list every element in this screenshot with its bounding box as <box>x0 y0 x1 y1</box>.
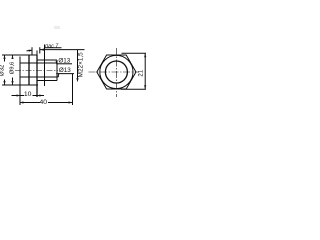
svg-text:Ø13: Ø13 <box>59 67 71 74</box>
svg-text:пас 7: пас 7 <box>45 43 59 49</box>
dimension line shaft diameter <box>12 55 14 59</box>
svg-text:21: 21 <box>138 69 144 76</box>
flange top edge + extension left <box>2 54 37 56</box>
shaft top edge / bore line <box>20 62 57 64</box>
dimension max7 left arrow <box>27 49 32 52</box>
leader lower D13 <box>57 74 60 77</box>
dimension max7 line <box>40 49 85 51</box>
shaft left face / extension line <box>19 57 21 106</box>
hexagon nut outline <box>97 55 136 89</box>
svg-text:10: 10 <box>24 91 32 98</box>
dimension line flange diameter <box>4 55 6 62</box>
body top edge <box>37 59 57 61</box>
leader thread M22 <box>77 50 79 81</box>
dimension max7 extension stub right <box>39 47 41 53</box>
dimension max7 extension stub left <box>31 47 33 55</box>
svg-text:M22×1,5: M22×1,5 <box>78 52 85 77</box>
callout shelf upper D13 <box>56 63 72 65</box>
body right face <box>56 60 58 81</box>
dimension 21 extension top <box>122 52 147 54</box>
flange right face upper extension <box>36 51 38 56</box>
dimension 40 line <box>20 102 40 104</box>
centerline vertical hex <box>115 48 117 97</box>
groove line / extension through body <box>44 45 46 87</box>
svg-text:Ø9,6: Ø9,6 <box>10 62 16 75</box>
extension line 40 right <box>72 74 74 105</box>
shaft bottom edge / bore line <box>20 76 57 78</box>
chamfer circle <box>100 55 133 88</box>
callout shelf lower D13 <box>56 73 74 75</box>
svg-text:Ø13: Ø13 <box>58 58 70 65</box>
wire centerline left view <box>15 70 58 72</box>
dimension 10 line <box>12 95 25 97</box>
svg-text:Ø32: Ø32 <box>0 64 5 76</box>
centerline horizontal hex <box>89 71 140 73</box>
faint artifact smudge <box>54 26 60 29</box>
dimension 21 line <box>144 53 146 89</box>
flange bottom edge + extension left <box>2 84 38 86</box>
flange left face <box>28 55 30 85</box>
body bottom edge <box>37 80 57 82</box>
svg-text:40: 40 <box>40 99 48 106</box>
bore circle <box>105 61 127 83</box>
dimension max7 shelf under text <box>44 47 62 49</box>
flange right face / extension down <box>36 55 38 97</box>
leader upper D13 <box>56 61 57 63</box>
dimension 21 extension bottom <box>121 88 146 90</box>
